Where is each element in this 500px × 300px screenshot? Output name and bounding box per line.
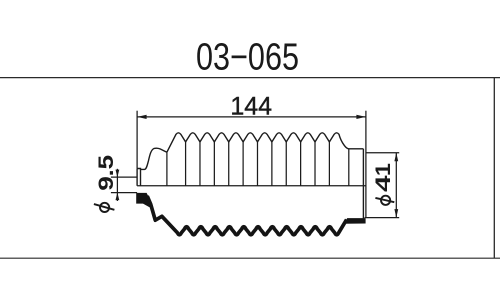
- svg-text:144: 144: [230, 92, 272, 120]
- dia 9.5 ext top: [111, 176, 137, 178]
- left flat and S-curve shoulder: [141, 148, 167, 169]
- arrow dia9.5 top (outside, pointing down): [116, 170, 120, 178]
- svg-text:4: 4: [372, 175, 395, 192]
- axis baseline: [137, 185, 366, 187]
- dia 41 dim line: [395, 153, 397, 218]
- small end left face: [136, 169, 138, 186]
- arrow dia41 bottom: [394, 209, 398, 218]
- svg-text:9: 9: [95, 176, 118, 191]
- phi symbol of dia 9.5: [94, 203, 115, 212]
- arrow 144 right: [356, 115, 366, 119]
- dim 144 ext line right: [365, 111, 367, 218]
- dia 41 ext bottom / cap bottom edge: [365, 217, 400, 219]
- right divider: [493, 78, 495, 259]
- arrow 144 left: [137, 115, 147, 119]
- bellows fold verticals: [167, 142, 349, 186]
- top rule: [0, 77, 500, 79]
- small end bar: [137, 169, 140, 186]
- bellows outline: [167, 133, 364, 152]
- svg-text:5: 5: [95, 155, 118, 170]
- svg-text:1: 1: [372, 163, 395, 176]
- bottom rule: [0, 257, 500, 259]
- arrowheads: [116, 115, 399, 218]
- dim 144 ext line left: [136, 111, 138, 169]
- arrow dia9.5 bottom (outside, pointing up): [116, 193, 120, 201]
- right cap left face: [362, 149, 364, 219]
- arrow dia41 top: [394, 153, 398, 162]
- phi symbol of dia 41: [375, 196, 394, 205]
- svg-text:03−065: 03−065: [196, 37, 299, 79]
- boot top outline: [137, 133, 363, 219]
- dim 144 line: [137, 116, 366, 118]
- dia 9.5 dim line: [116, 169, 118, 201]
- dia 41 ext top / cap top edge: [366, 152, 399, 154]
- bottom silhouette: small end block: [136, 193, 153, 207]
- dia 9.5 ext bottom: [111, 192, 137, 194]
- bottom silhouette thick wavy outline: [147, 196, 346, 235]
- bottom right bar: [344, 218, 366, 224]
